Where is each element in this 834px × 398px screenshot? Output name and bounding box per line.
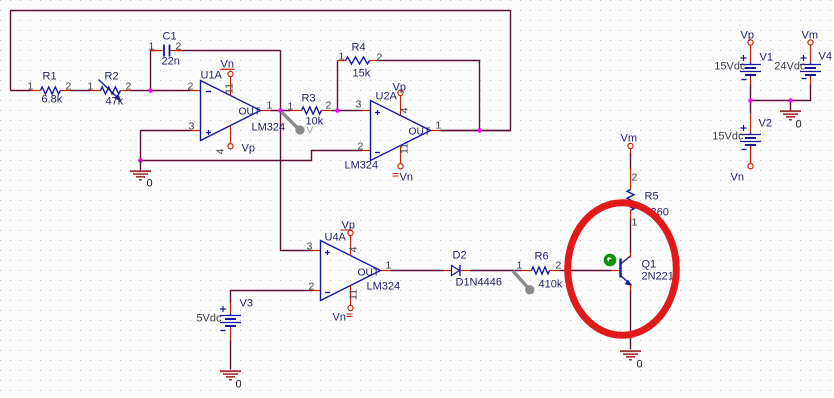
svg-text:Vn: Vn <box>731 172 744 184</box>
wire Vm to R5 <box>630 154 632 169</box>
resistor R3 <box>288 93 332 128</box>
svg-text:R2: R2 <box>105 71 119 83</box>
svg-text:3: 3 <box>189 121 195 133</box>
wire R5 to Q1 collector <box>630 219 632 253</box>
wire Q1 emitter to ground <box>630 291 632 350</box>
ground 0 under V3 <box>220 371 242 390</box>
voltage source V2 <box>712 114 772 164</box>
svg-text:D1N4446: D1N4446 <box>456 277 502 289</box>
power pin Vn (U2A pin 11) <box>400 146 402 164</box>
svg-text:1: 1 <box>267 100 273 112</box>
wire vertical through U1A output node down to U4A pin3 <box>281 51 313 251</box>
svg-text:V3: V3 <box>240 298 253 310</box>
junction node ground tap right <box>788 98 793 103</box>
ground 0 under Q1 <box>620 351 643 370</box>
svg-text:15Vdc: 15Vdc <box>712 131 744 143</box>
svg-text:0: 0 <box>147 178 153 190</box>
power pin Vn (U4A pin 11) <box>350 286 352 306</box>
svg-text:LM324: LM324 <box>252 122 286 134</box>
ground 0 under U1A <box>130 161 153 190</box>
svg-text:11: 11 <box>224 83 236 94</box>
power symbol Vm right <box>802 30 819 46</box>
svg-text:1: 1 <box>436 120 442 132</box>
svg-text:OUT: OUT <box>409 127 431 138</box>
svg-text:2: 2 <box>126 81 132 93</box>
svg-text:1: 1 <box>632 217 638 229</box>
svg-text:R4: R4 <box>352 42 366 54</box>
wire ground tap right <box>790 101 792 111</box>
resistor R2 (variable) <box>88 71 132 108</box>
ground 0 right power bus <box>780 111 802 130</box>
power symbol Vn bottom right <box>731 164 754 184</box>
svg-text:V4: V4 <box>819 51 832 63</box>
junction node U1A input (R2/C1) <box>148 88 153 93</box>
wire C1 output to feedback vertical <box>177 50 281 52</box>
svg-text:LM324: LM324 <box>367 281 401 293</box>
svg-text:4: 4 <box>348 246 360 252</box>
op-amp U4A <box>307 220 401 324</box>
transistor Q1 <box>612 253 681 291</box>
svg-text:3: 3 <box>356 99 362 111</box>
svg-text:47k: 47k <box>106 96 124 108</box>
wire V3 to U4A pin2 <box>231 291 313 303</box>
wire V3 minus to ground <box>230 341 232 370</box>
svg-text:U1A: U1A <box>201 70 223 82</box>
svg-text:Vm: Vm <box>621 133 638 145</box>
svg-text:OUT: OUT <box>239 107 261 118</box>
svg-text:4: 4 <box>215 148 227 154</box>
wire V1 bottom bus <box>751 85 811 114</box>
wire D2 to R6 <box>471 270 522 272</box>
junction node U1A output <box>278 108 283 113</box>
svg-text:Vn: Vn <box>400 172 413 184</box>
svg-text:Vp: Vp <box>741 30 754 42</box>
svg-text:R6: R6 <box>535 251 549 263</box>
resistor R5 <box>627 169 669 229</box>
junction node ground net left <box>138 158 143 163</box>
svg-text:Vn: Vn <box>221 59 234 71</box>
svg-text:Vp: Vp <box>242 143 255 155</box>
svg-text:15Vdc: 15Vdc <box>714 61 746 73</box>
svg-text:0: 0 <box>236 379 242 391</box>
wire U4A output to D2 <box>391 270 444 272</box>
svg-text:OUT: OUT <box>358 268 380 279</box>
svg-text:24Vdc: 24Vdc <box>774 61 806 73</box>
svg-text:4: 4 <box>399 107 411 113</box>
svg-text:2: 2 <box>377 52 383 64</box>
wire top feedback loop <box>11 11 511 131</box>
svg-text:0: 0 <box>796 119 802 131</box>
resistor R1 <box>28 71 72 106</box>
svg-text:1: 1 <box>88 81 94 93</box>
svg-text:0: 0 <box>637 359 643 371</box>
svg-text:R5: R5 <box>645 191 659 203</box>
svg-text:C1: C1 <box>163 31 177 43</box>
svg-text:11: 11 <box>348 289 360 300</box>
power symbol Vm at R5 <box>621 133 638 154</box>
svg-text:2: 2 <box>188 81 194 93</box>
wire R4 left branch <box>337 61 339 111</box>
wire U2A output row <box>441 130 511 132</box>
svg-text:1: 1 <box>288 101 294 113</box>
capacitor C1 <box>149 31 183 68</box>
svg-text:15k: 15k <box>353 68 371 80</box>
svg-text:2: 2 <box>66 81 72 93</box>
svg-text:1: 1 <box>149 41 155 53</box>
svg-text:R3: R3 <box>302 93 316 105</box>
svg-text:Vn: Vn <box>333 312 346 324</box>
svg-text:R1: R1 <box>43 71 57 83</box>
wire ground node to U2A pin2 <box>141 151 363 161</box>
power pin Vn (U1A pin 11) <box>230 77 232 96</box>
junction node U2A output <box>477 128 482 133</box>
svg-text:11: 11 <box>399 143 411 154</box>
voltage source V3 <box>196 298 253 341</box>
svg-text:Vp: Vp <box>393 82 406 94</box>
power pin Vp (U2A pin 4) <box>400 96 402 116</box>
svg-text:1: 1 <box>517 260 523 272</box>
wire R1 input row <box>11 90 31 92</box>
wire U1A output to R3 <box>271 110 291 112</box>
svg-text:2: 2 <box>309 281 315 293</box>
voltage source V1 <box>714 46 773 85</box>
wire V2 bottom to Vn (pin stub) <box>750 147 752 164</box>
wire R6 to Q1 base <box>560 270 612 272</box>
wire R1 to R2 <box>71 90 91 92</box>
green bias marker near Q1 <box>604 254 617 267</box>
svg-text:D2: D2 <box>453 250 467 262</box>
diode D2 <box>444 250 502 289</box>
svg-text:1: 1 <box>386 260 392 272</box>
op-amp U2A <box>345 82 442 184</box>
svg-text:2: 2 <box>556 260 562 272</box>
svg-text:V2: V2 <box>759 118 772 130</box>
voltage probe at U1A output <box>282 112 314 137</box>
svg-text:2: 2 <box>358 141 364 153</box>
svg-text:Q1: Q1 <box>642 259 657 271</box>
power symbol Vp right <box>741 30 754 46</box>
power pin Vp (U4A pin 4) <box>350 236 352 256</box>
svg-text:Vm: Vm <box>802 30 819 42</box>
resistor R4 <box>338 42 383 80</box>
op-amp U1A <box>188 59 286 155</box>
svg-text:1: 1 <box>28 81 34 93</box>
junction node V1 V2 bus <box>748 98 753 103</box>
svg-text:22n: 22n <box>162 56 180 68</box>
svg-text:LM324: LM324 <box>345 160 379 172</box>
svg-text:5Vdc: 5Vdc <box>196 313 222 325</box>
resistor R6 <box>517 251 563 291</box>
wire R2 to U1A pin2 <box>131 90 191 92</box>
svg-text:U4A: U4A <box>325 232 347 244</box>
svg-text:V1: V1 <box>760 52 773 64</box>
svg-text:1: 1 <box>339 51 345 63</box>
wire C1 branch vertical <box>151 51 157 91</box>
svg-text:410k: 410k <box>539 279 563 291</box>
voltage probe at R6 <box>513 271 535 294</box>
wire R4 right to U2A output node <box>378 61 480 131</box>
svg-text:2: 2 <box>176 41 182 53</box>
svg-text:2: 2 <box>326 100 332 112</box>
red ellipse annotation around Q1 <box>568 203 677 336</box>
voltage source V4 <box>774 46 832 85</box>
junction node R4 left <box>335 108 340 113</box>
svg-text:3: 3 <box>307 241 313 253</box>
wire R3 to U2A pin3 <box>332 110 363 112</box>
svg-text:V: V <box>307 126 314 137</box>
svg-text:6.8k: 6.8k <box>42 94 63 106</box>
wire U1A pin3 to ground node <box>141 131 191 161</box>
svg-text:2: 2 <box>632 172 638 184</box>
power pin Vp (U1A pin 4) <box>230 126 232 144</box>
